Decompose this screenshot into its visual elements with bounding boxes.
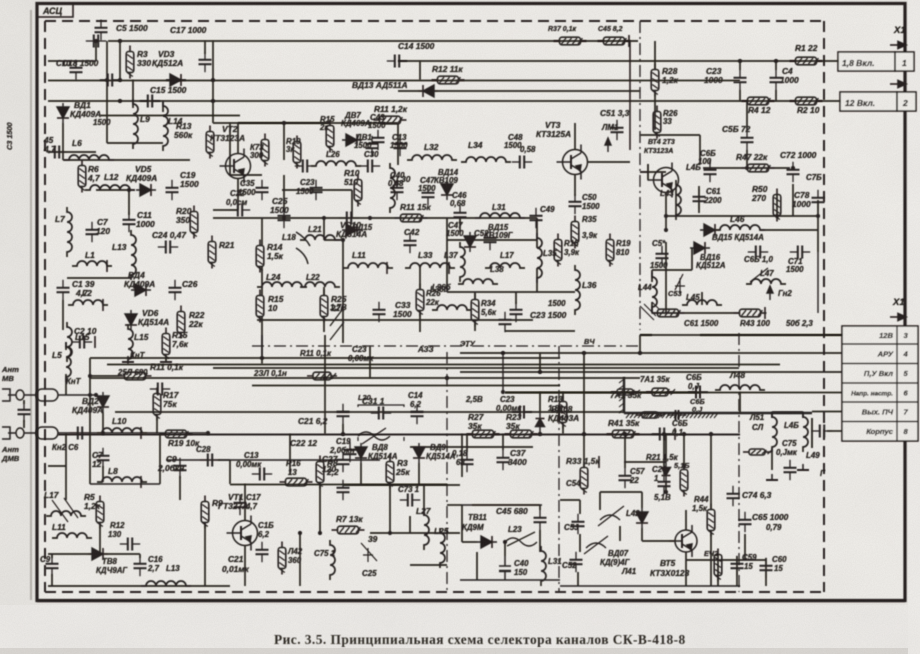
resistor R51 — [743, 449, 772, 455]
junction — [260, 356, 264, 360]
wire — [474, 292, 476, 300]
wire — [651, 270, 653, 282]
wire — [89, 434, 91, 484]
capacitor C48 — [512, 156, 532, 169]
wire — [685, 552, 687, 586]
junction — [662, 432, 666, 436]
inductor L31b — [541, 546, 546, 586]
terminal — [94, 336, 96, 348]
diode VD13 — [418, 85, 438, 97]
junction — [538, 370, 542, 374]
wire — [665, 192, 667, 216]
junction — [101, 431, 105, 435]
wire — [587, 161, 630, 163]
wire — [179, 476, 181, 500]
wire — [102, 466, 104, 482]
wire — [460, 579, 560, 581]
wire — [709, 160, 711, 164]
capacitor C23 1000 — [734, 70, 747, 90]
wire — [244, 484, 246, 521]
antenna DMV connector — [2, 427, 208, 439]
capacitor C17b — [234, 495, 247, 515]
wire — [717, 555, 719, 586]
coupling bracket — [811, 418, 813, 448]
wire — [410, 446, 533, 448]
capacitor C60b — [668, 410, 687, 420]
wire — [398, 90, 640, 92]
junction — [105, 78, 109, 82]
wire — [652, 269, 692, 271]
resistor R44 — [707, 504, 715, 537]
wire — [319, 482, 321, 533]
resistor R11b — [374, 116, 407, 124]
capacitor C33 — [373, 302, 386, 322]
capacitor C2 — [72, 336, 92, 349]
capacitor C40a — [391, 180, 404, 200]
inductor L11 — [343, 263, 393, 268]
wire — [204, 41, 206, 54]
wire — [502, 353, 504, 392]
wire bus AFC — [48, 80, 740, 82]
wire — [100, 553, 140, 555]
wire bus — [230, 484, 447, 486]
junction — [323, 376, 327, 380]
wire — [472, 504, 540, 506]
wire — [289, 434, 291, 474]
wire — [324, 335, 326, 434]
wire to mixer — [166, 459, 380, 461]
resistor R13c — [559, 396, 567, 429]
resistor R15c — [554, 234, 562, 267]
wire IF output feed — [812, 411, 842, 413]
coil LM1 arrow — [605, 138, 611, 152]
wire — [90, 375, 119, 377]
wire — [771, 412, 773, 418]
wire — [562, 392, 564, 400]
resistor R16 — [326, 120, 334, 153]
wire — [261, 335, 263, 364]
wire — [505, 392, 700, 394]
wire — [562, 424, 564, 434]
inductor L32 — [407, 155, 457, 160]
junction — [127, 188, 131, 192]
resistor R10 — [354, 174, 362, 207]
capacitor C40 electrolytic — [499, 556, 511, 580]
wire P,U Vkl feed — [460, 371, 842, 373]
ground L49 — [797, 464, 809, 470]
capacitor C10 — [70, 60, 83, 80]
junction — [94, 39, 98, 43]
transistor VT4 — [648, 163, 679, 198]
junction — [206, 431, 210, 435]
resistor R48 — [652, 309, 685, 317]
inductor L10 — [97, 428, 147, 433]
wire — [162, 101, 164, 112]
inductor L46 — [715, 225, 765, 230]
wire — [96, 189, 135, 191]
wire — [447, 239, 537, 241]
junction — [298, 531, 302, 535]
wire — [505, 330, 575, 332]
resistor R41 — [607, 430, 640, 438]
junction — [88, 374, 92, 378]
wire — [460, 217, 537, 219]
inductor L44 — [652, 272, 657, 312]
resistor R35 — [571, 216, 579, 249]
resistor R73 — [261, 134, 269, 167]
inductor L36c — [432, 305, 472, 310]
resistor R34 — [471, 294, 479, 327]
left edge scan shadow — [30, 10, 32, 600]
transistor VT1 — [227, 516, 258, 551]
resistor R25 — [320, 290, 328, 323]
wire — [560, 585, 740, 587]
trim inductor L17 — [52, 498, 78, 522]
capacitor C9 — [174, 458, 187, 478]
capacitor C5x — [572, 514, 585, 534]
wire — [342, 240, 344, 343]
wire — [139, 554, 141, 558]
capacitor C68 — [748, 246, 768, 259]
capacitor C78 — [812, 190, 825, 210]
wire — [244, 545, 246, 586]
resistor R22 — [177, 306, 185, 339]
section boundary dash-dot x=640 — [639, 21, 641, 330]
diode VD16 — [690, 242, 710, 254]
diode VD2 — [97, 392, 109, 412]
wire — [419, 268, 421, 290]
junction — [538, 432, 542, 436]
inductor L1 — [72, 261, 112, 266]
capacitor C46 — [454, 205, 467, 225]
junction — [118, 78, 122, 82]
wire — [48, 465, 66, 467]
resistor R19b — [160, 430, 193, 438]
junction — [664, 490, 668, 494]
inductor L25 — [440, 528, 445, 568]
connector pin box 12V — [840, 92, 897, 111]
terminal — [448, 262, 450, 274]
inner dashed border top — [45, 20, 824, 22]
capacitor C8 — [47, 146, 67, 159]
wire — [629, 41, 631, 150]
junction — [582, 351, 586, 355]
wire — [663, 434, 665, 474]
inductor L48 — [715, 385, 765, 390]
resistor R23b — [505, 430, 538, 438]
resistor R37 — [554, 37, 587, 45]
wire — [583, 353, 585, 434]
wire — [466, 434, 468, 452]
junction — [94, 393, 98, 397]
junction — [211, 99, 215, 103]
wire — [462, 541, 477, 543]
wire — [639, 335, 641, 353]
wire — [238, 122, 330, 124]
junction — [745, 166, 749, 170]
wire — [447, 291, 575, 293]
wire — [62, 152, 64, 160]
inductor L17c — [46, 511, 86, 516]
wire — [90, 483, 160, 485]
antenna MV connector — [2, 389, 96, 401]
wire IF bus — [115, 411, 624, 413]
capacitor C59 — [731, 556, 744, 576]
inductor L31 — [475, 213, 525, 218]
wire — [409, 516, 411, 533]
wire — [95, 41, 97, 61]
wire — [459, 218, 461, 232]
junction — [582, 432, 586, 436]
wire — [624, 434, 626, 468]
resistor R21 — [208, 236, 216, 269]
wire — [640, 334, 652, 336]
wire — [397, 123, 399, 165]
inductor L20 trimmer — [358, 428, 390, 444]
wire — [775, 61, 777, 70]
resistor R15 — [256, 290, 264, 323]
wire — [641, 492, 643, 508]
junction — [282, 121, 286, 125]
resistor R41d — [646, 388, 675, 396]
wire — [218, 459, 230, 461]
capacitor C6 — [70, 427, 90, 440]
wire — [229, 460, 231, 484]
wire — [772, 411, 803, 413]
junction — [501, 390, 505, 394]
junction — [774, 59, 778, 63]
wire — [817, 200, 819, 230]
resistor R50 — [773, 189, 781, 222]
wire — [62, 123, 64, 152]
wire — [261, 316, 263, 358]
ground R15 — [160, 356, 172, 362]
resistor R7 — [332, 526, 365, 534]
inductor L34 — [461, 157, 511, 162]
inductor L49 — [803, 412, 808, 452]
junction — [682, 432, 686, 436]
inductor L15b — [128, 324, 133, 364]
resistor R19c — [606, 234, 614, 267]
wire — [369, 346, 371, 378]
diode VD8b — [88, 548, 108, 560]
resistor R14 — [256, 240, 264, 273]
inductor L27 — [424, 510, 429, 550]
resistor R27 — [467, 430, 500, 438]
trim inductor L42 — [598, 506, 624, 526]
wire — [48, 553, 100, 555]
junction — [638, 351, 642, 355]
capacitor C58b — [652, 428, 672, 441]
transistor VT2 — [220, 149, 251, 184]
wire — [642, 540, 675, 542]
wire — [213, 209, 238, 211]
capacitor C23a — [310, 180, 323, 200]
wire — [342, 424, 344, 434]
inductor L13 — [131, 230, 136, 280]
wire — [128, 190, 130, 215]
wire — [640, 134, 700, 136]
junction — [664, 214, 668, 218]
capacitor C13b — [394, 136, 407, 156]
wire — [132, 80, 134, 108]
wire — [776, 195, 778, 216]
capacitor C18 — [100, 74, 120, 87]
wire — [419, 310, 421, 332]
junction — [322, 216, 326, 220]
diode VD07 — [636, 508, 648, 528]
capacitor C15 — [140, 95, 160, 108]
inner dashed border bottom — [45, 591, 824, 593]
wire — [699, 135, 701, 164]
varicap VD14 — [441, 180, 453, 200]
wire — [48, 151, 96, 153]
wire — [461, 434, 463, 477]
inductor L33 — [405, 263, 455, 268]
capacitor C25b — [150, 383, 170, 396]
resistor R13 — [206, 126, 214, 159]
trim capacitor C25b — [361, 543, 377, 562]
wire — [261, 218, 263, 246]
wire main bottom bus — [58, 434, 740, 436]
resistor R42b — [278, 542, 286, 575]
wire — [504, 542, 506, 556]
junction — [775, 214, 779, 218]
capacitor C20 — [658, 474, 671, 494]
wire — [204, 522, 206, 586]
capacitor C12 — [120, 538, 140, 551]
wire — [746, 150, 748, 168]
wire — [343, 484, 460, 486]
wire — [817, 230, 819, 252]
resistor R41b — [636, 412, 665, 418]
wire — [461, 505, 463, 542]
wire — [119, 41, 121, 80]
diode VD15 KD514 — [700, 224, 720, 236]
inductor L21 — [300, 235, 340, 240]
inductor L18 with switch arrow — [296, 232, 310, 264]
trim capacitor C68 arrow — [750, 268, 768, 282]
resistor R28 — [651, 64, 659, 97]
wire — [62, 300, 64, 330]
shield hatch vertical — [623, 377, 625, 413]
wire — [536, 268, 538, 292]
wire — [65, 434, 67, 500]
resistor R9 — [201, 496, 209, 529]
capacitor C31 — [371, 407, 391, 420]
diode VD11 — [477, 536, 497, 548]
connector pin box 1,8V — [838, 52, 895, 71]
resistor R40 — [611, 389, 640, 395]
capacitor C37 — [497, 450, 510, 470]
junction — [623, 432, 627, 436]
wire — [283, 123, 285, 160]
capacitor C72 — [787, 162, 800, 182]
wire — [159, 434, 161, 484]
wire — [351, 190, 353, 218]
resistor R26 — [653, 106, 661, 139]
wire — [665, 482, 667, 492]
wire bus +U top — [108, 40, 638, 42]
wire — [599, 492, 601, 510]
inductor L14 — [163, 101, 168, 151]
wire — [106, 41, 108, 80]
junction — [664, 228, 668, 232]
wire — [560, 499, 580, 501]
junction — [341, 238, 345, 242]
wire — [539, 353, 541, 372]
zener VD17 — [662, 462, 671, 482]
capacitor korpus — [812, 425, 832, 438]
inductor L30 — [390, 163, 395, 213]
wire AGC feed — [460, 352, 842, 354]
wire — [619, 526, 621, 541]
ground L15 — [122, 356, 134, 362]
resistor R8 — [316, 456, 324, 489]
resistor R11c — [119, 372, 152, 380]
terminal — [598, 456, 600, 468]
section boundary dash-dot x=559 — [558, 346, 560, 592]
wire — [502, 434, 504, 450]
wire — [474, 320, 476, 331]
wire — [65, 374, 67, 395]
wire — [299, 533, 301, 586]
wire — [665, 242, 667, 313]
inductor L9 — [133, 99, 138, 149]
capacitor C19 — [166, 180, 179, 200]
capacitor C7b — [97, 448, 110, 468]
junction — [368, 216, 372, 220]
capacitor C71 — [790, 246, 810, 259]
wire bus — [213, 367, 739, 369]
diode VD4 — [131, 284, 151, 296]
wire bus mixer — [213, 217, 460, 219]
capacitor C27 — [337, 480, 350, 500]
resistor R26b — [416, 284, 424, 317]
transistor VT4 base lead — [640, 164, 648, 180]
capacitor C26 — [295, 160, 315, 173]
capacitor C23d — [512, 406, 532, 419]
inductor L37 — [460, 242, 465, 282]
inductor L13b — [141, 581, 191, 586]
resistor R38 — [598, 37, 631, 45]
capacitor C14 — [387, 55, 407, 68]
junction — [791, 166, 795, 170]
transistor VT5 — [669, 525, 697, 557]
capacitor C14 6,2 — [411, 404, 424, 424]
capacitor C21 6,2 — [337, 404, 350, 424]
trim capacitor C53 — [675, 274, 685, 294]
inductor L24 — [257, 282, 307, 287]
capacitor C22 12 — [337, 452, 350, 472]
junction — [211, 78, 215, 82]
capacitor C53b — [499, 312, 512, 332]
wire — [579, 534, 581, 552]
diode VD5 — [136, 184, 156, 196]
inductor L45 — [682, 300, 722, 305]
wire korpus — [827, 430, 842, 432]
capacitor C23c — [510, 302, 523, 322]
inductor L17 — [485, 263, 525, 268]
wire — [48, 60, 96, 62]
section boundary dash-dot x=447 — [446, 352, 448, 592]
inductor L8 — [97, 477, 147, 482]
resistor R2 — [790, 97, 823, 105]
capacitor C13c — [252, 468, 272, 481]
wire — [666, 215, 818, 217]
wire — [574, 123, 576, 150]
resistor R15b — [162, 328, 170, 361]
